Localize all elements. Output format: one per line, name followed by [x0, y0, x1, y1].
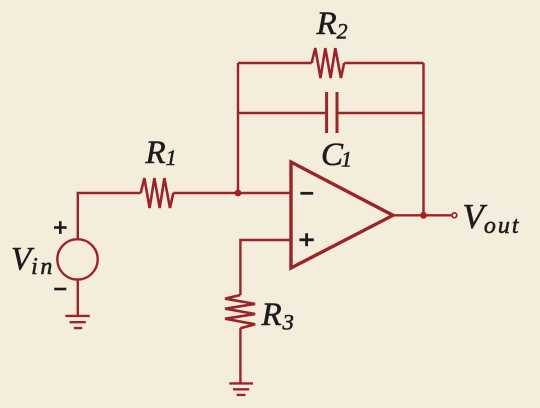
resistor R1	[141, 178, 174, 208]
wire: R3 to ground	[239, 328, 241, 383]
op-amp plus sign	[299, 233, 313, 246]
resistor R2	[312, 48, 345, 78]
wire: capacitor branch right	[339, 112, 424, 114]
capacitor C1	[327, 92, 337, 133]
output terminal (open circle)	[452, 213, 457, 218]
wire: top feedback right segment	[344, 62, 423, 64]
wire: capacitor branch left	[238, 112, 325, 114]
ground (Vin)	[65, 316, 90, 328]
wire: right vertical of feedback loop	[422, 63, 424, 215]
ground (R3)	[229, 383, 253, 395]
wire: left vertical of feedback loop	[237, 63, 239, 193]
wire: top feedback left segment	[238, 62, 312, 64]
op-amp U1	[291, 162, 393, 268]
resistor R3	[225, 295, 255, 328]
Vin plus sign	[54, 221, 67, 234]
wire: non-inverting input branch	[240, 240, 291, 295]
Vin minus sign	[54, 288, 66, 291]
wire: Vin bottom to ground	[77, 280, 79, 316]
wire: output	[393, 214, 452, 216]
node A: junction dot (inverting input node)	[235, 190, 242, 197]
node B: junction dot (output node)	[420, 212, 427, 219]
wire: Vin top to R1 (input net)	[78, 193, 141, 240]
voltage source V_in	[57, 239, 97, 279]
wire: R1 to op-amp inverting input	[173, 192, 291, 194]
op-amp minus sign	[300, 192, 313, 195]
